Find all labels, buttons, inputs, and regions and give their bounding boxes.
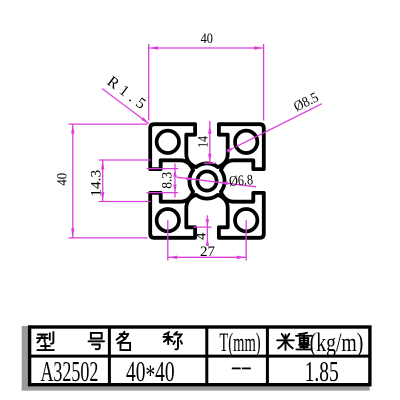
svg-text:A32502: A32502	[40, 357, 98, 388]
table column dividers	[108, 327, 111, 385]
dim 27: text	[200, 244, 215, 260]
dim 40 top: text	[201, 30, 214, 46]
data cell: dashes	[232, 367, 241, 369]
header cell: name (ming cheng)	[117, 332, 131, 350]
center hole	[197, 171, 216, 190]
table frame	[30, 327, 370, 385]
profile outline 40x40 extrusion	[150, 124, 264, 238]
svg-text:T(mm): T(mm)	[219, 328, 260, 358]
dim 40 left: dimension line	[72, 124, 74, 238]
dim 14.3: text	[89, 170, 105, 197]
table shadow left	[22, 326, 28, 391]
dim 4: extension line	[194, 226, 212, 228]
header cell: T(mm)	[219, 328, 260, 358]
dim 8.3: extension lines	[147, 168, 179, 170]
dim 14.3: extension lines	[99, 159, 151, 161]
corner hole top-right	[235, 131, 257, 153]
dim 14: text	[194, 136, 211, 148]
svg-text:Ø6.8: Ø6.8	[228, 171, 253, 189]
corner hole top-left	[157, 131, 179, 153]
svg-text:40: 40	[54, 173, 70, 186]
leader dia 6.8	[177, 177, 257, 187]
dim 27: dimension line	[168, 256, 246, 258]
dim 4: dimension line	[206, 215, 208, 244]
svg-text:40: 40	[201, 30, 214, 46]
header cell: weight (mi zhong kg/m)	[277, 334, 294, 350]
svg-text:4: 4	[194, 232, 210, 240]
svg-text:14.3: 14.3	[89, 170, 105, 197]
leader dia 8.5	[236, 104, 322, 147]
dim 40 top: dimension line	[149, 47, 264, 49]
data cell: 40*40	[126, 356, 175, 392]
table row divider	[30, 355, 370, 358]
dim 14.3: dimension line	[102, 160, 104, 202]
header cell: model (xing hao)	[37, 332, 54, 350]
svg-text:1.85: 1.85	[305, 356, 339, 388]
data cell: A32502	[40, 357, 98, 388]
corner hole bottom-right	[235, 209, 257, 231]
dim 8.3: text	[159, 172, 175, 189]
dim 40 left: text	[54, 173, 70, 186]
table shadow bottom	[22, 386, 370, 390]
svg-text:14: 14	[194, 136, 211, 148]
dim 27: extension lines	[167, 220, 169, 260]
svg-text:40*40: 40*40	[126, 356, 175, 392]
svg-text:27: 27	[200, 244, 215, 260]
dim 40 left: extension lines	[69, 123, 148, 125]
svg-text:8.3: 8.3	[159, 172, 175, 189]
data cell: 1.85	[305, 356, 339, 388]
corner hole bottom-left	[157, 209, 179, 231]
dim 14: dimension line	[209, 121, 211, 163]
dim 8.3: dimension line	[174, 164, 176, 198]
dim 40 top: extension lines	[148, 44, 150, 121]
leader R1.5	[102, 89, 149, 124]
dim 4: text	[194, 232, 210, 240]
svg-text:(kg/m): (kg/m)	[310, 327, 364, 356]
